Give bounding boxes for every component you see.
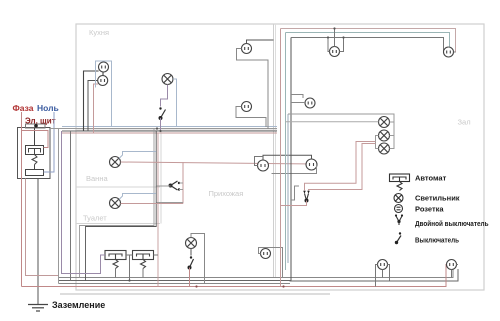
socket S6 hall top right (444, 47, 454, 57)
socket S1 kitchen (99, 62, 109, 72)
svg-text:Светильник: Светильник (415, 194, 460, 203)
panel bus bar (26, 170, 44, 176)
legend lamp icon (394, 194, 403, 203)
wire hall lamps to double switch B (309, 144, 376, 191)
lamp hallway (186, 238, 197, 249)
wire hallway lamp feed (191, 234, 205, 284)
wire bottom bundle gray1 (59, 269, 454, 278)
wire riser gray (80, 129, 155, 278)
wire bath lamp neutral (119, 152, 156, 159)
wire ground lead (37, 179, 39, 305)
legend double switch icon (395, 214, 403, 225)
lamp hall 3 (379, 143, 390, 154)
wire hall lamp1 feed (286, 121, 379, 123)
svg-text:Кухня: Кухня (89, 28, 109, 37)
double switch hall (303, 191, 310, 203)
socket S11 hall bottom (378, 260, 388, 270)
legend switch icon (395, 232, 401, 244)
wire phase branch lower (26, 179, 59, 276)
wire S8 feed (259, 248, 283, 278)
breaker B1 bottom (105, 251, 126, 269)
wire kitchen bundle blue (62, 126, 277, 128)
wire kitchen sockets phase (94, 84, 99, 133)
wire hall top phase (281, 29, 456, 53)
wall kitchen bottom (76, 129, 277, 131)
wire bottom bundle phase (22, 265, 447, 287)
wall toilet bottom (76, 223, 160, 225)
wire toilet lamp neutral (119, 194, 156, 200)
wire riser dark (86, 131, 157, 281)
legend socket icon (395, 205, 403, 213)
wire hall top teal (286, 33, 450, 48)
electric panel box (18, 128, 51, 179)
wire kitchen lamp neutral (173, 79, 177, 127)
svg-text:Прихожая: Прихожая (209, 189, 244, 198)
svg-text:Зал: Зал (458, 118, 471, 127)
socket S10 hallway pair right (306, 159, 317, 170)
wire hall wall riser blue (287, 114, 289, 263)
wire kitchen sockets link (102, 72, 104, 76)
wire step near hall switch (291, 186, 299, 200)
ground (28, 305, 48, 312)
svg-text:Ванна: Ванна (86, 174, 108, 183)
lamp bath (110, 157, 121, 168)
wall bottom inner (60, 293, 330, 295)
svg-text:Заземление: Заземление (52, 300, 105, 310)
wire B2 right (154, 254, 159, 256)
wire S9 left step (255, 157, 264, 166)
socket S4 kitchen right (242, 102, 252, 112)
wall bath/toilet divider (76, 186, 160, 188)
wire bath circuit vertical (182, 162, 184, 204)
wire kitchen lamp to switch (161, 85, 168, 107)
wire kitchen bundle gray (50, 128, 277, 130)
wire kitchen socket S2 stub (88, 81, 98, 132)
wire B1 down (115, 269, 117, 278)
wire panel center vertical (34, 128, 36, 146)
lamp toilet (110, 198, 121, 209)
wall bath right (160, 130, 162, 224)
node junction dots (195, 285, 284, 287)
lamp hall 2 (379, 130, 390, 141)
wire double switch hall down (281, 201, 307, 206)
svg-text:Розетка: Розетка (415, 205, 444, 214)
wire S3 loop (237, 49, 269, 130)
wire bath circuit to riser (157, 202, 184, 204)
svg-text:Двойной выключатель: Двойной выключатель (415, 219, 489, 228)
wire hall lamp23 link (376, 136, 379, 149)
node panel input junction (34, 124, 38, 128)
legend breaker icon (390, 174, 410, 191)
socket S2 kitchen (98, 76, 108, 86)
socket S9 hallway pair left (258, 160, 269, 171)
wire hall wall riser dark (290, 38, 292, 281)
socket S3 kitchen right (242, 44, 252, 54)
wire hall wall riser phase (280, 29, 282, 287)
wire S4 loop (236, 107, 266, 128)
wire kitchen bundle dark (62, 130, 277, 132)
wire hallway switch down (189, 268, 191, 287)
wire S11 stubs (376, 265, 390, 287)
wire socket pair top bar (263, 155, 312, 160)
wire S6 stubs (444, 47, 456, 52)
wire phase in panel (22, 131, 49, 148)
wire socket pair lower loop (272, 165, 317, 174)
lamp hall 1 (379, 117, 390, 128)
wire B2 down (142, 269, 144, 278)
svg-text:Выключатель: Выключатель (415, 236, 459, 245)
breaker in panel (26, 146, 44, 165)
socket S12 hall bottom right (447, 260, 457, 270)
svg-text:Ноль: Ноль (37, 103, 59, 113)
panel meter bar (26, 124, 46, 128)
wire bottom bundle dark (59, 269, 459, 281)
wire hall top dark (291, 38, 444, 53)
wire hall wall riser teal (285, 33, 287, 271)
wire toilet lamp phase (121, 203, 184, 205)
wire neutral lead (44, 112, 55, 172)
breaker B2 bottom (133, 251, 154, 269)
wire S5 stubs (328, 29, 344, 52)
svg-text:Фаза: Фаза (13, 103, 34, 113)
wire kitchen switch down (160, 118, 162, 131)
wire B1 left (62, 131, 106, 274)
lamp kitchen (162, 74, 173, 85)
svg-text:Туалет: Туалет (83, 214, 107, 223)
wire S7 feeds (291, 95, 305, 103)
wire phase lead (21, 112, 23, 287)
wire double switch stubs (157, 183, 184, 190)
wire S12 stubs (452, 265, 459, 278)
apartment outer wall (76, 24, 484, 290)
socket S8 hallway (261, 249, 271, 259)
wire bath lamp phase (121, 162, 317, 164)
socket S5 hall top (330, 47, 340, 57)
wire hall lamps right bus (288, 114, 394, 149)
socket S7 hall left (305, 98, 315, 108)
switch kitchen (159, 107, 166, 120)
wire kitchen bundle phase (62, 132, 277, 134)
wire hall lamps to double switch A (305, 142, 376, 191)
wire bottom bundle gray2 (59, 283, 291, 285)
wire kitchen sockets dark loop (84, 71, 99, 131)
switch hallway (188, 256, 194, 269)
wire riser phase (157, 133, 159, 287)
wire B1 B2 link (126, 255, 133, 281)
svg-text:Автомат: Автомат (415, 174, 447, 183)
wire left riser dark (70, 131, 72, 281)
double switch bath (169, 181, 181, 191)
wire hallway lamp to switch (190, 249, 192, 256)
wall hall left (double) (273, 24, 275, 277)
wire kitchen sockets neutral (96, 61, 112, 127)
wire left riser gray (58, 129, 60, 284)
wire S3 top (247, 40, 274, 44)
